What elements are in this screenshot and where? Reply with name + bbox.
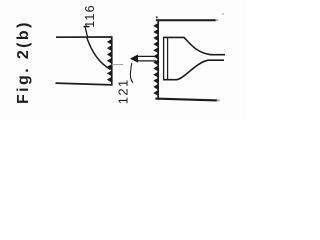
horn top profile and neck top line (163, 37, 225, 54)
leader line 116 (85, 27, 87, 37)
bottom line fade tail (217, 99, 220, 101)
faint gap line (112, 64, 124, 66)
horn mouth flange left line (163, 37, 165, 80)
top line fade tail (216, 19, 219, 21)
leader curve 121 (130, 63, 133, 83)
svg-text:116: 116 (83, 4, 97, 28)
left plate top line (56, 36, 112, 38)
horn bottom profile and neck bottom line (163, 60, 224, 79)
svg-text:Fig. 2(b): Fig. 2(b) (15, 20, 32, 104)
left plate serrated backbone (111, 37, 113, 86)
left plate serration teeth (107, 39, 112, 83)
right plate serrated backbone (157, 19, 159, 99)
right bracket top line (156, 19, 216, 21)
svg-text:121: 121 (116, 78, 131, 104)
arrow 121 shaft (138, 56, 157, 61)
right bracket bottom line (155, 99, 217, 101)
curved inner surface arc (87, 38, 111, 70)
arrow 121 head (130, 55, 137, 62)
scan artifact tick above bracket corner (156, 16, 158, 18)
horn mouth flange right line (167, 38, 169, 80)
right plate serration teeth (153, 23, 158, 96)
left plate bottom line (56, 83, 113, 85)
leader tick for 116 (84, 26, 90, 28)
speck (222, 13, 223, 14)
